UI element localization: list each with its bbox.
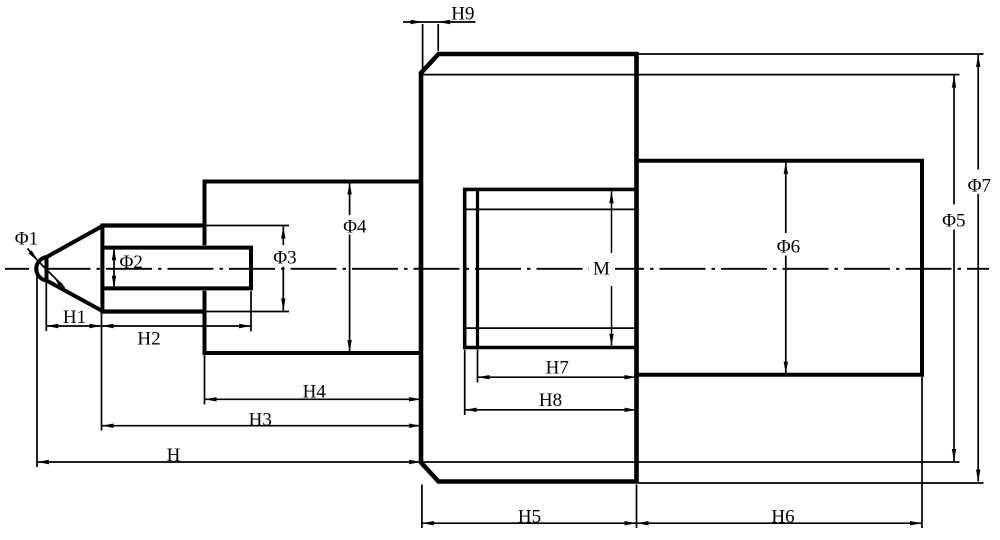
- cylinder phi3 top and bottom edges: [102, 223, 206, 227]
- svg-text:Φ3: Φ3: [273, 248, 296, 269]
- extension line H7 left: [477, 350, 479, 383]
- thread crest thin line top: [465, 208, 637, 210]
- extension line H5/H6 shared: [636, 485, 638, 529]
- svg-text:Φ2: Φ2: [120, 252, 143, 273]
- dimension phi5: [953, 76, 955, 205]
- extension line H2 right: [250, 291, 252, 332]
- dimension phi1 (ball diameter, diagonal): [28, 249, 39, 262]
- svg-text:H3: H3: [249, 410, 272, 431]
- svg-text:H7: H7: [546, 358, 569, 379]
- extension line H1 right / H3 left: [101, 314, 103, 431]
- block phi4 outline: [205, 182, 422, 354]
- dimension phi3: [282, 227, 284, 246]
- dimension H9: [403, 21, 476, 23]
- dimension phi6: [785, 162, 787, 233]
- threaded hole M outer outline: [465, 189, 637, 347]
- extension line phi7 top: [639, 53, 984, 55]
- extension lines H9: [422, 24, 424, 70]
- dimension H1: [46, 325, 101, 327]
- svg-text:H5: H5: [518, 507, 541, 528]
- svg-text:H: H: [167, 445, 181, 466]
- stud phi2 (small shaft): [102, 248, 251, 289]
- svg-text:Φ1: Φ1: [15, 229, 38, 250]
- dimension phi7: [977, 55, 979, 170]
- halo for label M: [589, 253, 615, 286]
- svg-text:Φ6: Φ6: [777, 237, 800, 258]
- svg-text:H2: H2: [137, 329, 160, 350]
- extension line H left (from ball): [36, 274, 38, 468]
- svg-text:M: M: [593, 259, 610, 280]
- thread crest thin line bottom: [465, 327, 637, 329]
- extension line H5 left: [421, 485, 423, 529]
- svg-text:H8: H8: [539, 390, 562, 411]
- dimension H4: [205, 398, 422, 400]
- svg-text:Φ4: Φ4: [343, 217, 367, 238]
- svg-text:H9: H9: [451, 4, 474, 25]
- dimension H3: [102, 425, 422, 427]
- svg-text:H6: H6: [771, 507, 794, 528]
- svg-text:H4: H4: [303, 382, 327, 403]
- centerline (main axis): [5, 268, 989, 270]
- extension lines phi3: [207, 225, 290, 227]
- dimension H6: [637, 522, 923, 524]
- svg-text:H1: H1: [63, 307, 86, 328]
- dimension M (thread): [611, 191, 613, 253]
- extension line phi5 top: [423, 74, 960, 76]
- dimension H8: [465, 409, 637, 411]
- extension line phi7 bottom: [639, 482, 984, 484]
- dimension phi4: [349, 183, 351, 216]
- cylinder phi6 outline: [637, 161, 923, 375]
- cone (taper from ball to first cylinder): [47, 226, 103, 311]
- thread relief inner vertical: [476, 189, 479, 347]
- extension line H6 right: [921, 377, 923, 528]
- extension line H1 left: [45, 282, 47, 332]
- extension line phi5 bottom: [421, 461, 960, 463]
- svg-text:Φ7: Φ7: [968, 176, 991, 197]
- dimension H (overall length): [37, 461, 421, 463]
- dimension phi2: [113, 248, 115, 287]
- cone base edge (vertical): [100, 226, 104, 312]
- extension line H4 left: [204, 355, 206, 405]
- ball tip (dome): [36, 257, 46, 280]
- extension line H8 left: [464, 350, 466, 416]
- dimension H5: [422, 522, 637, 524]
- svg-text:Φ5: Φ5: [942, 211, 965, 232]
- dimension H2: [102, 325, 252, 327]
- dimension H7: [478, 376, 637, 378]
- main body (large block with chamfers): [421, 54, 637, 482]
